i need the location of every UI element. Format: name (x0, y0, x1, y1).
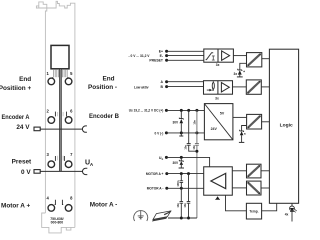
svg-text:4x: 4x (285, 212, 289, 216)
svg-text:30V: 30V (173, 121, 180, 125)
module housing left wall (45, 8, 46, 213)
svg-text:100n: 100n (176, 180, 180, 186)
svg-text:3x: 3x (215, 97, 219, 101)
terminal 7 circle (65, 161, 72, 168)
isolator T5 reversed (247, 181, 262, 195)
svg-text:4: 4 (47, 196, 50, 201)
terminal 1 circle (48, 78, 55, 85)
current source symbol in U3 (212, 83, 214, 89)
junction A+ a (180, 172, 183, 175)
svg-text:7: 7 (70, 152, 73, 157)
wire T1 to logic (262, 58, 270, 60)
wire zener stub row1 (240, 63, 247, 70)
svg-text:A: A (90, 162, 94, 167)
node Ub (165, 156, 168, 159)
chassis rail wire (168, 217, 197, 219)
svg-text:Preset: Preset (12, 159, 32, 166)
svg-text:Motor A -: Motor A - (90, 201, 118, 208)
svg-text:10n: 10n (176, 203, 180, 208)
terminal 7 contact tick (63, 156, 65, 161)
svg-text:A: A (161, 80, 164, 84)
driver triangle (211, 173, 226, 188)
motor driver U5 (204, 167, 233, 195)
svg-text:Motor A +: Motor A + (1, 202, 30, 209)
LED wire (291, 203, 293, 221)
wire E- to input stage U2 (167, 55, 204, 57)
wire pair from connector (59, 69, 61, 171)
isolator T2 (246, 80, 261, 94)
svg-text:Positiion +: Positiion + (0, 85, 31, 92)
wire MOTOR A+ to driver (167, 173, 204, 175)
svg-text:30V: 30V (173, 161, 180, 165)
svg-text:Encoder A: Encoder A (2, 114, 30, 121)
module housing outline top-left latch (36, 6, 38, 8)
isolator T1 (247, 53, 262, 67)
wire U3 to isolator T2 (233, 86, 247, 88)
svg-text:- 0 V ... 31,2 V: - 0 V ... 31,2 V (129, 54, 151, 58)
terminal 2 contact tick (54, 112, 56, 117)
module housing bottom notch (66, 227, 71, 230)
clamp hatch row3 (58, 156, 63, 161)
suppressor zener D1 (238, 69, 242, 71)
svg-text:MOTOR A -: MOTOR A - (147, 187, 164, 191)
svg-text:3x: 3x (216, 63, 220, 67)
svg-text:End: End (19, 76, 31, 83)
isolator T3 (247, 114, 262, 129)
svg-text:1: 1 (47, 71, 50, 76)
svg-text:E-: E- (160, 54, 163, 58)
ground row1 (237, 76, 243, 78)
wire T2 to logic (261, 86, 269, 88)
svg-text:b: b (162, 157, 164, 161)
LEFT MODULE (0, 1, 148, 233)
node PRESET (165, 59, 168, 62)
stub to terminal 5 (67, 77, 69, 78)
junction Ub (180, 156, 183, 159)
svg-text:2: 2 (47, 108, 50, 113)
svg-text:Position -: Position - (88, 84, 117, 91)
svg-text:0 V (-): 0 V (-) (154, 131, 163, 135)
wire T4 to logic (261, 170, 269, 172)
terminal 4 contact tick (54, 200, 57, 205)
node MOTOR A+ (165, 172, 168, 175)
logic block U6 (269, 49, 298, 203)
24V plug contact (34, 127, 40, 131)
0V fork contact (82, 168, 87, 174)
junction A+ b (187, 172, 190, 175)
svg-text:Encoder B: Encoder B (89, 113, 119, 120)
0V supply wire (40, 170, 82, 172)
dark cap branch wire (188, 110, 190, 143)
ground row3 (239, 141, 244, 143)
svg-text:3: 3 (47, 152, 50, 157)
junction rail a (180, 217, 183, 220)
buffer triangle in U3 (221, 83, 229, 92)
wire T3 to logic (262, 121, 270, 123)
terminal 3 circle (48, 161, 55, 168)
wire B to encoder stage U3 (167, 86, 204, 88)
wire driver to isolator T4 (232, 170, 246, 172)
node B (165, 85, 168, 88)
0V plug contact (34, 170, 40, 174)
svg-text:Low aktiv: Low aktiv (134, 86, 149, 90)
wire E+ to input stage U2 (167, 50, 204, 52)
wire A to encoder stage U3 (167, 81, 204, 83)
node E- (165, 54, 168, 57)
dark cap plates (187, 144, 191, 146)
status LED (290, 206, 295, 211)
module housing top-left tab (39, 2, 47, 8)
svg-text:5: 5 (70, 71, 73, 76)
junction VDC+ b (187, 109, 190, 112)
junction A- a (180, 187, 183, 190)
wire T5 to logic (261, 187, 269, 189)
wire U2 to isolator T1 (233, 55, 246, 57)
wire driver to temp sensor (226, 195, 247, 211)
junction 0V a (180, 131, 183, 134)
module housing bottom profile (42, 213, 75, 233)
svg-text:10n: 10n (183, 145, 187, 150)
wire VDC+ to DCDC (166, 109, 204, 111)
junction jog (195, 150, 198, 153)
terminal 6 contact tick (66, 112, 68, 117)
junction VDC+ a (180, 109, 183, 112)
node VDC+ (165, 109, 168, 112)
svg-text:*: * (243, 70, 245, 75)
svg-text:0 V: 0 V (21, 169, 31, 176)
zener 30V motor (179, 157, 183, 162)
threshold symbol in U2 (206, 53, 214, 60)
ground stub 0V (179, 133, 183, 136)
gray cap plates (195, 144, 199, 146)
clamp hatch row2 (58, 112, 63, 116)
node MOTOR A- (165, 187, 168, 190)
wire 0V to DCDC (166, 132, 204, 134)
module housing top edge (36, 1, 75, 227)
svg-text:8: 8 (70, 196, 73, 201)
terminal 4 circle (48, 205, 55, 212)
node 0V (165, 131, 168, 134)
suppressor zener D2 (240, 130, 244, 132)
capacitor 10n motor A- (180, 188, 184, 218)
DCDC converter U4 (204, 104, 233, 140)
rail contact blade symbol (153, 211, 171, 220)
24V supply wire (40, 128, 82, 130)
svg-text:MOTOR A +: MOTOR A + (146, 172, 164, 176)
LED emission arrows (294, 210, 297, 213)
svg-text:End: End (102, 75, 114, 82)
wire DCDC to isolator T3 (233, 116, 247, 118)
isolation arc symbol (134, 210, 148, 221)
wire zener stub row3 (242, 126, 247, 131)
junction 0V b (195, 131, 198, 134)
svg-text:5V: 5V (220, 112, 225, 116)
svg-text:*: * (244, 132, 246, 137)
capacitor 100n across motor (180, 174, 184, 189)
terminal 8 circle (65, 205, 72, 212)
wire temp to logic (262, 203, 277, 211)
node A (165, 80, 168, 83)
wire PRESET to input stage U2 (167, 59, 204, 61)
junction VDC+ c (195, 109, 198, 112)
terminal 8 contact tick (61, 200, 64, 205)
svg-text:PRESET: PRESET (149, 59, 163, 63)
encoder stage U3 box (204, 81, 233, 95)
svg-text:10n: 10n (192, 145, 196, 150)
isolator T4 (247, 164, 262, 178)
junction rail b (187, 217, 190, 220)
thermal mark under driver (216, 196, 220, 199)
dark cap branch jog to gray line (189, 145, 197, 151)
svg-text:24V: 24V (211, 127, 218, 131)
wire driver to isolator T5 (232, 187, 246, 189)
svg-text:10n: 10n (183, 203, 187, 208)
input stage U2 box (204, 49, 234, 62)
wire Ub to driver (166, 157, 209, 166)
capacitor 10n motor A+ (187, 174, 191, 218)
svg-text:3x: 3x (234, 72, 238, 76)
terminal 2 circle (48, 117, 55, 124)
terminal 3 contact tick (54, 156, 56, 161)
connector housing box (51, 45, 69, 68)
terminal 5 circle (65, 78, 72, 85)
gray cap branch wire (196, 110, 198, 218)
ground motor zener (179, 167, 184, 169)
stub to terminal 1 (52, 77, 54, 78)
svg-text:Logic: Logic (280, 123, 293, 129)
zener 30V supply (179, 110, 183, 119)
terminal 6 circle (65, 117, 72, 124)
temp sensor box (246, 203, 261, 219)
svg-text:B: B (161, 85, 164, 89)
RIGHT SCHEMATIC (129, 49, 299, 222)
svg-text:000-800: 000-800 (51, 220, 64, 224)
svg-text:24 V: 24 V (16, 124, 30, 131)
svg-text:6: 6 (70, 108, 73, 113)
svg-text:Us 19,2 ... 31,2 V DC (+): Us 19,2 ... 31,2 V DC (+) (129, 109, 164, 113)
svg-text:Temp.: Temp. (249, 209, 258, 213)
svg-text:10n: 10n (192, 120, 196, 125)
connector crimp hatch (54, 69, 68, 77)
wire MOTOR A- to driver (167, 187, 204, 189)
buffer triangle in U2 (222, 51, 230, 60)
24V fork contact (82, 126, 87, 132)
node E+ (165, 50, 168, 53)
